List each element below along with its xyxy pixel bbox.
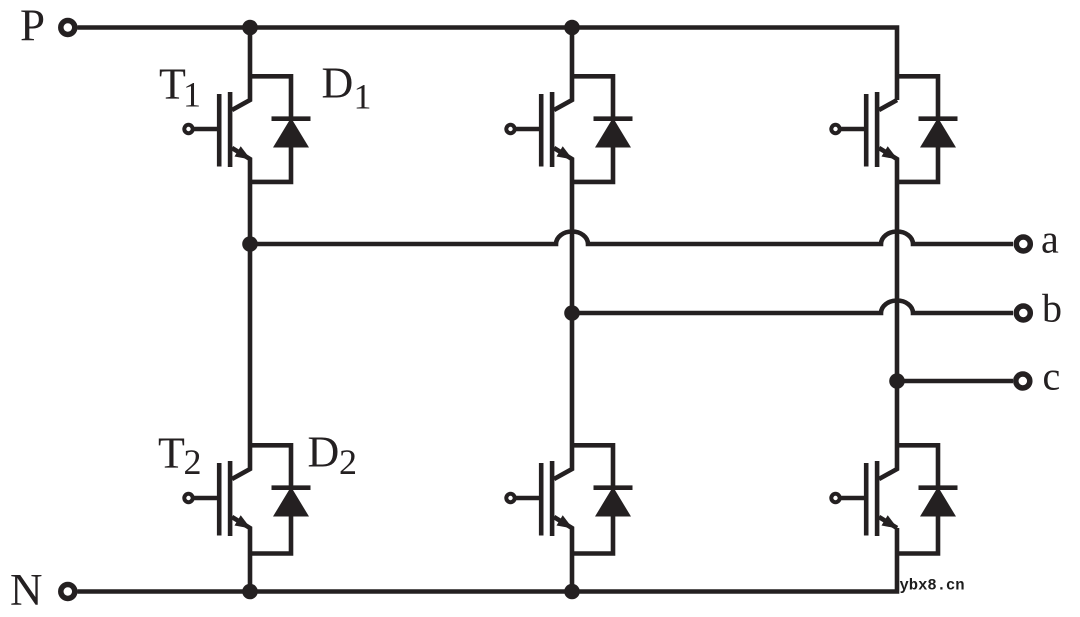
svg-text:D: D (308, 428, 340, 477)
svg-text:N: N (10, 565, 43, 615)
svg-text:P: P (20, 1, 45, 51)
svg-text:1: 1 (183, 75, 201, 115)
svg-text:a: a (1041, 217, 1059, 262)
svg-text:2: 2 (184, 442, 202, 482)
svg-text:ybx8.cn: ybx8.cn (900, 577, 965, 595)
svg-text:T: T (159, 60, 186, 109)
svg-text:2: 2 (339, 442, 357, 482)
svg-text:D: D (322, 59, 354, 108)
svg-text:1: 1 (354, 76, 372, 116)
svg-text:T: T (158, 429, 185, 478)
svg-text:c: c (1043, 354, 1061, 399)
svg-text:b: b (1042, 286, 1062, 331)
